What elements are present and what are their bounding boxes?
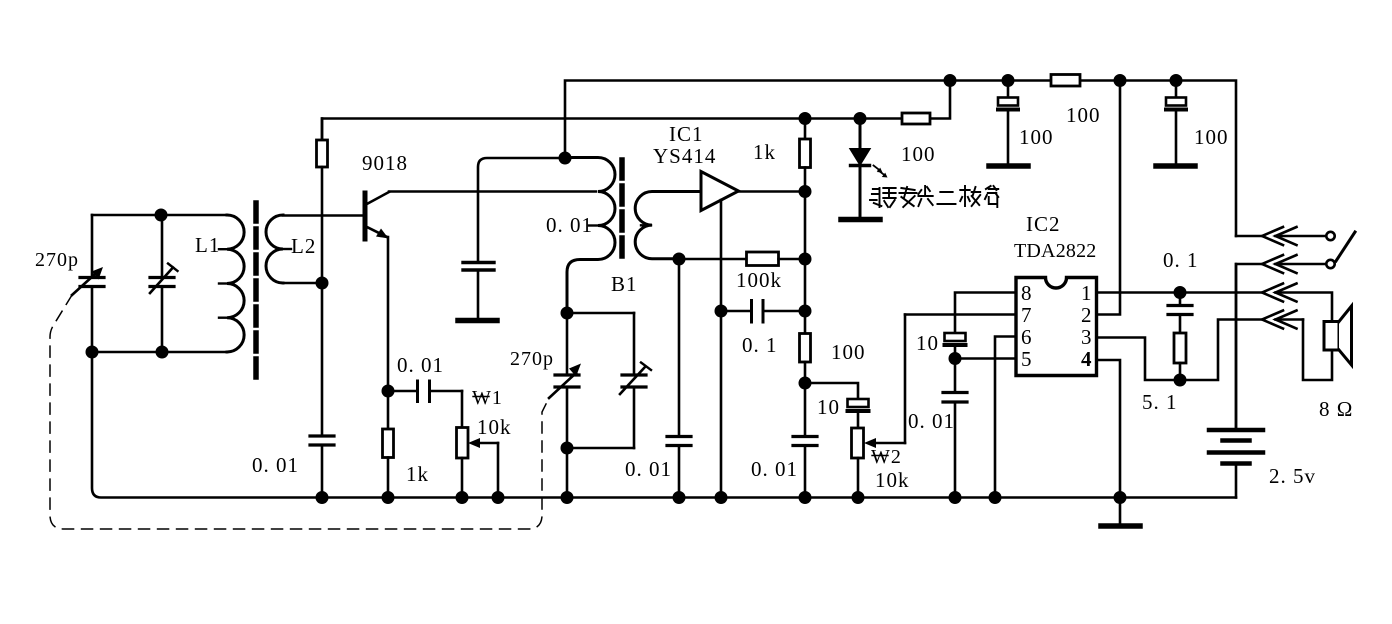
node: IC1 gnd on bus — [716, 492, 726, 502]
node: tank top junction — [156, 210, 166, 220]
node: W1 bottom on bus — [457, 492, 467, 502]
svg-text:100k: 100k — [736, 268, 782, 292]
wire: pin 8 — [955, 293, 1016, 333]
svg-text:10k: 10k — [477, 415, 512, 439]
capacitor 10 (electrolytic, pin8-pin5) — [945, 333, 966, 359]
svg-text:0. 1: 0. 1 — [1163, 248, 1199, 272]
variable capacitor C2a 270p (osc) — [549, 313, 581, 448]
svg-text:0. 01: 0. 01 — [625, 457, 672, 481]
node: base bypass on bus — [317, 492, 327, 502]
wire: pin 3 to network — [1097, 338, 1181, 381]
speaker 8 ohm — [1303, 306, 1352, 380]
svg-text:5. 1: 5. 1 — [1142, 390, 1178, 414]
svg-text:100: 100 — [831, 340, 866, 364]
node: audio cap on bus — [800, 492, 810, 502]
node: 100k right — [800, 254, 810, 264]
svg-text:L1: L1 — [195, 233, 220, 257]
svg-text:IC2: IC2 — [1026, 212, 1061, 236]
capacitor 0.01 (det output to gnd) — [667, 437, 691, 498]
switch lever — [1336, 232, 1355, 261]
wire: ground bus — [92, 352, 1236, 498]
wire: left tank bottom — [92, 351, 227, 354]
jack contact 1 (to V+) — [1236, 227, 1335, 245]
node: B1 primary top — [560, 153, 570, 163]
wire: IC1 ground pin — [720, 200, 723, 498]
capacitor 0.01 (audio to gnd) — [793, 383, 817, 498]
svg-text:IC1: IC1 — [669, 122, 704, 146]
battery 2.5v — [1209, 264, 1263, 498]
node: tank bottom left — [87, 347, 97, 357]
node: pin6 on bus — [990, 492, 1000, 502]
wire: oscillator tank top — [567, 312, 634, 315]
wire: emitter down — [387, 237, 390, 391]
svg-text:270p: 270p — [35, 249, 79, 271]
svg-text:100: 100 — [901, 142, 936, 166]
capacitor 0.01 (coupling to W1) — [388, 381, 462, 402]
svg-text:1k: 1k — [753, 140, 776, 164]
node: L2 bottom / bias — [317, 278, 327, 288]
svg-text:0. 01: 0. 01 — [546, 213, 593, 237]
jack contact 3 (output to speaker top) — [1262, 284, 1332, 321]
wire: output vertical — [804, 192, 807, 334]
node: det cap on bus — [674, 492, 684, 502]
svg-text:10: 10 — [817, 395, 840, 419]
svg-text:6: 6 — [1021, 325, 1033, 349]
jack contact 2 (to battery +) — [1236, 255, 1335, 428]
svg-text:7: 7 — [1021, 303, 1033, 327]
svg-text:100: 100 — [1066, 103, 1101, 127]
svg-text:3: 3 — [1081, 325, 1093, 349]
capacitor 10 (electrolytic, volume) — [848, 399, 869, 428]
svg-text:YS414: YS414 — [653, 144, 716, 168]
wire: pin 7 from volume wiper — [905, 313, 1016, 316]
svg-text:5: 5 — [1021, 347, 1033, 371]
svg-text:0. 01: 0. 01 — [751, 457, 798, 481]
svg-text:2. 5v: 2. 5v — [1269, 464, 1316, 488]
node: emitter / coupling — [383, 386, 393, 396]
capacitor 0.1 (zobel) — [1168, 293, 1192, 334]
potentiometer W2 10k (volume) — [852, 315, 906, 498]
node: W1 wiper on bus — [493, 492, 503, 502]
svg-text:W1: W1 — [472, 387, 503, 409]
node: IC1 output — [800, 186, 810, 196]
capacitor 0.01 (collector decoupling, grounded) — [458, 158, 565, 321]
wire: L2 bottom to bias node — [283, 282, 322, 285]
wire: top supply rail V+ — [565, 81, 1236, 237]
svg-text:B1: B1 — [611, 272, 638, 296]
resistor 100 (decoupling to volume) — [800, 334, 811, 384]
op-amp IC1 YS414 — [701, 172, 739, 211]
node: pin5 / caps — [950, 353, 960, 363]
wire: oscillator tank bottom — [567, 448, 634, 498]
transformer core B1 — [619, 160, 625, 263]
wire: second rail (transistor supply) — [322, 81, 950, 141]
node: zobel bottom — [1175, 375, 1185, 385]
wire: to volume cap — [805, 383, 858, 398]
resistor 100k (feedback) — [679, 252, 805, 266]
variable capacitor C2b trimmer (osc) — [620, 313, 651, 448]
resistor 1k (emitter) — [383, 391, 394, 498]
LED D1 — [841, 119, 888, 220]
capacitor 0.01 (pin5 to gnd) — [943, 359, 967, 498]
svg-text:8: 8 — [1021, 281, 1033, 305]
jack contact 4 (speaker return) — [1262, 311, 1303, 329]
IC U2 TDA2822 — [1016, 278, 1097, 376]
node: pin1 / 0.1 — [1175, 287, 1185, 297]
node: pin5 cap on bus — [950, 492, 960, 502]
inductor L2 — [266, 215, 291, 283]
transistor Q1 9018 — [365, 192, 389, 239]
variable capacitor C1a 270p — [72, 215, 104, 352]
ganging dashed link — [50, 295, 549, 529]
node: LED on rail2 — [855, 113, 865, 123]
wire: pin 5 — [955, 357, 1016, 360]
wire: pin 2 to V+ — [1097, 81, 1121, 315]
resistor (base bias, top) — [317, 119, 328, 284]
wire: pin 1 output to jack — [1097, 291, 1263, 294]
node: rail1-rail2 junction — [945, 75, 955, 85]
svg-text:2: 2 — [1081, 303, 1093, 327]
node: B1 primary bottom / osc tank — [562, 308, 572, 318]
resistor 1k (IC1 load) — [800, 119, 811, 192]
capacitor 100 (electrolytic, rail filter 1) — [989, 81, 1028, 167]
node: 1k on rail2 — [800, 113, 810, 123]
svg-text:0. 01: 0. 01 — [908, 409, 955, 433]
node: filter1 on rail — [1003, 75, 1013, 85]
svg-text:100: 100 — [1019, 125, 1054, 149]
transformer B1 primary — [565, 158, 615, 314]
ground symbol (IC2) — [1101, 498, 1140, 527]
inductor L1 — [219, 215, 244, 352]
svg-text:9018: 9018 — [362, 151, 408, 175]
svg-text:W2: W2 — [871, 446, 902, 468]
svg-text:10: 10 — [916, 331, 939, 355]
node: volume feed — [800, 378, 810, 388]
svg-text:4: 4 — [1081, 347, 1093, 371]
capacitor 0.01 (base bypass) — [310, 283, 334, 498]
node: pin4 on bus — [1115, 492, 1125, 502]
svg-text:1k: 1k — [406, 462, 429, 486]
svg-text:L2: L2 — [291, 234, 316, 258]
svg-text:TDA2822: TDA2822 — [1014, 240, 1097, 262]
node: tank bottom trimmer — [157, 347, 167, 357]
svg-text:10k: 10k — [875, 468, 910, 492]
svg-text:0. 01: 0. 01 — [252, 453, 299, 477]
resistor 5.1 (zobel) — [1174, 333, 1186, 380]
transformer B1 secondary — [635, 192, 701, 259]
node: secondary bottom — [674, 254, 684, 264]
wire: pin 6 to ground — [995, 337, 1016, 498]
svg-text:100: 100 — [1194, 125, 1229, 149]
svg-text:1: 1 — [1081, 281, 1093, 305]
node: 1k emitter on bus — [383, 492, 393, 502]
potentiometer W1 10k — [457, 391, 499, 498]
wire: pin 4 to ground — [1097, 360, 1121, 498]
svg-text:0. 01: 0. 01 — [397, 353, 444, 377]
node: IC1 gnd / 0.1 cap — [716, 306, 726, 316]
node: osc tank on bus — [562, 492, 572, 502]
node: W2 on bus — [853, 492, 863, 502]
wire: B1 secondary to IC1 input — [678, 259, 681, 435]
capacitor 0.1 (IC1 bypass) — [721, 301, 805, 323]
svg-text:0. 1: 0. 1 — [742, 333, 778, 357]
node: filter2 on rail — [1171, 75, 1181, 85]
svg-text:8 Ω: 8 Ω — [1319, 397, 1353, 421]
label 绿发光二极管 (green LED) — [870, 186, 998, 207]
wire: zobel node to jack contact 4 — [1180, 320, 1262, 381]
capacitor 100 (electrolytic, rail filter 2) — [1156, 81, 1195, 167]
resistor 100 (LED feed on rail2) — [902, 113, 930, 124]
node: osc tank bottom — [562, 443, 572, 453]
wire: left tank top — [92, 214, 227, 217]
wire: collector to B1 tap — [389, 190, 596, 193]
node: pin2 on rail — [1115, 75, 1125, 85]
variable capacitor C1b trimmer — [150, 215, 178, 352]
wire: L2 top to transistor base — [283, 214, 362, 217]
resistor 100 (rail decoupling) — [1051, 75, 1080, 87]
transformer core L1/L2 — [253, 203, 259, 385]
node: 0.1 right — [800, 306, 810, 316]
wire: IC1 output — [739, 190, 806, 193]
svg-text:270p: 270p — [510, 348, 554, 370]
